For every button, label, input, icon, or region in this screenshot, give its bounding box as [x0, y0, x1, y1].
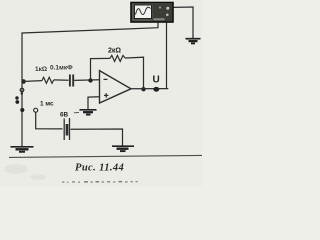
node A (input node dot): [21, 79, 26, 84]
left rail: node A down through switch to ground G1: [21, 83, 23, 146]
node B (summing junction dot): [88, 78, 92, 82]
wire: top loop from scope terminal to left rail: [22, 22, 158, 80]
wire: R1 to capacitor C1: [54, 79, 69, 81]
svg-text:1 мс: 1 мс: [40, 101, 54, 108]
wire: C1 to op-amp inverting input: [74, 79, 99, 82]
wire: throw terminal down to battery: [36, 112, 63, 129]
svg-text:6В: 6В: [60, 112, 69, 119]
switch S1 lower node dot: [20, 108, 24, 112]
bleed-through text fragment at bottom: [62, 181, 138, 183]
ground G1 (left rail): [11, 147, 34, 152]
faint paper smudges: [4, 164, 46, 180]
resistor R1 zigzag: [42, 77, 54, 83]
svg-text:1кΩ: 1кΩ: [35, 66, 47, 73]
svg-text:2кΩ: 2кΩ: [108, 48, 121, 55]
wire: op-amp output: [131, 88, 168, 90]
ground G4 (scope): [186, 39, 201, 44]
stray mark right of 6В: [74, 112, 79, 114]
wire: battery to ground G2: [71, 129, 123, 146]
resistor R2 zigzag (feedback): [110, 55, 125, 61]
switch S1 lever blob: [15, 96, 18, 99]
oscilloscope screen: [135, 5, 152, 19]
op-amp minus sign: [104, 78, 108, 80]
wire: non-inverting input to ground: [88, 97, 100, 109]
figure rule: [9, 155, 202, 157]
wire: R2 to output node: [125, 57, 144, 89]
switch throw terminal circle: [34, 108, 38, 112]
oscilloscope XSC1 body: [131, 3, 173, 23]
op-amp plus sign: [104, 94, 108, 96]
svg-text:0.1мкФ: 0.1мкФ: [50, 65, 73, 72]
ground G3 (op-amp + input): [80, 110, 97, 115]
wire: scope right terminal to ground G4: [173, 7, 193, 38]
op-amp U1 triangle: [100, 71, 132, 103]
svg-text:Рис. 11.44: Рис. 11.44: [75, 163, 124, 174]
paper background: [0, 0, 202, 187]
oscilloscope knobs: [166, 7, 169, 10]
switch S1 upper contact dot: [20, 88, 24, 92]
node C (feedback/output junction dot): [141, 87, 145, 91]
wire: input node to resistor R1: [22, 80, 42, 83]
svg-text:U: U: [153, 75, 160, 86]
ground G2 (battery): [112, 146, 134, 151]
node U (output measurement node dot): [153, 87, 159, 92]
battery V1 plates: [63, 119, 65, 141]
capacitor C1 plates: [69, 75, 71, 87]
wire: feedback riser up from node B: [91, 58, 111, 80]
oscilloscope trace: [136, 7, 151, 14]
wire: scope channel lead down to output node: [166, 22, 168, 89]
